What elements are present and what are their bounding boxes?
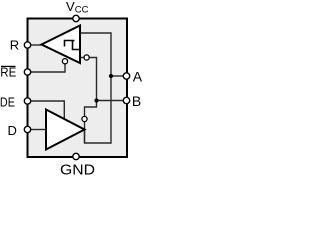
- svg-text:DE: DE: [0, 94, 15, 109]
- svg-text:D: D: [8, 123, 17, 138]
- svg-text:R: R: [10, 37, 19, 52]
- svg-text:A: A: [133, 68, 143, 84]
- svg-text:CC: CC: [75, 4, 89, 15]
- svg-text:GND: GND: [60, 163, 95, 177]
- svg-text:V: V: [66, 0, 75, 14]
- svg-text:B: B: [132, 93, 141, 109]
